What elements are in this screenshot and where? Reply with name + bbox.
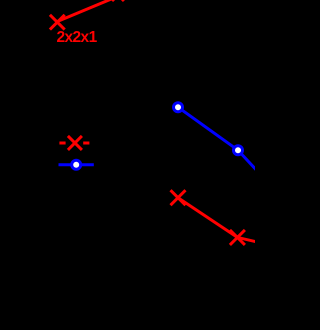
- red top series line segment: [57, 0, 119, 22]
- label 2x2x1: [57, 30, 97, 46]
- legend red X marker: [68, 136, 82, 150]
- legend red dashed sample: [59, 142, 89, 145]
- blue series polyline: [178, 107, 258, 172]
- red bottom X1: [171, 190, 186, 205]
- blue circle C2: [234, 146, 243, 155]
- blue circle C1: [174, 103, 183, 112]
- red top series X marker 1: [50, 15, 65, 30]
- red top series X marker 2 (clipped at top edge): [112, 0, 124, 1]
- red bottom X2: [230, 230, 245, 245]
- red bottom series polyline: [178, 198, 258, 243]
- legend blue line sample: [59, 163, 94, 166]
- legend blue circle marker: [72, 160, 81, 169]
